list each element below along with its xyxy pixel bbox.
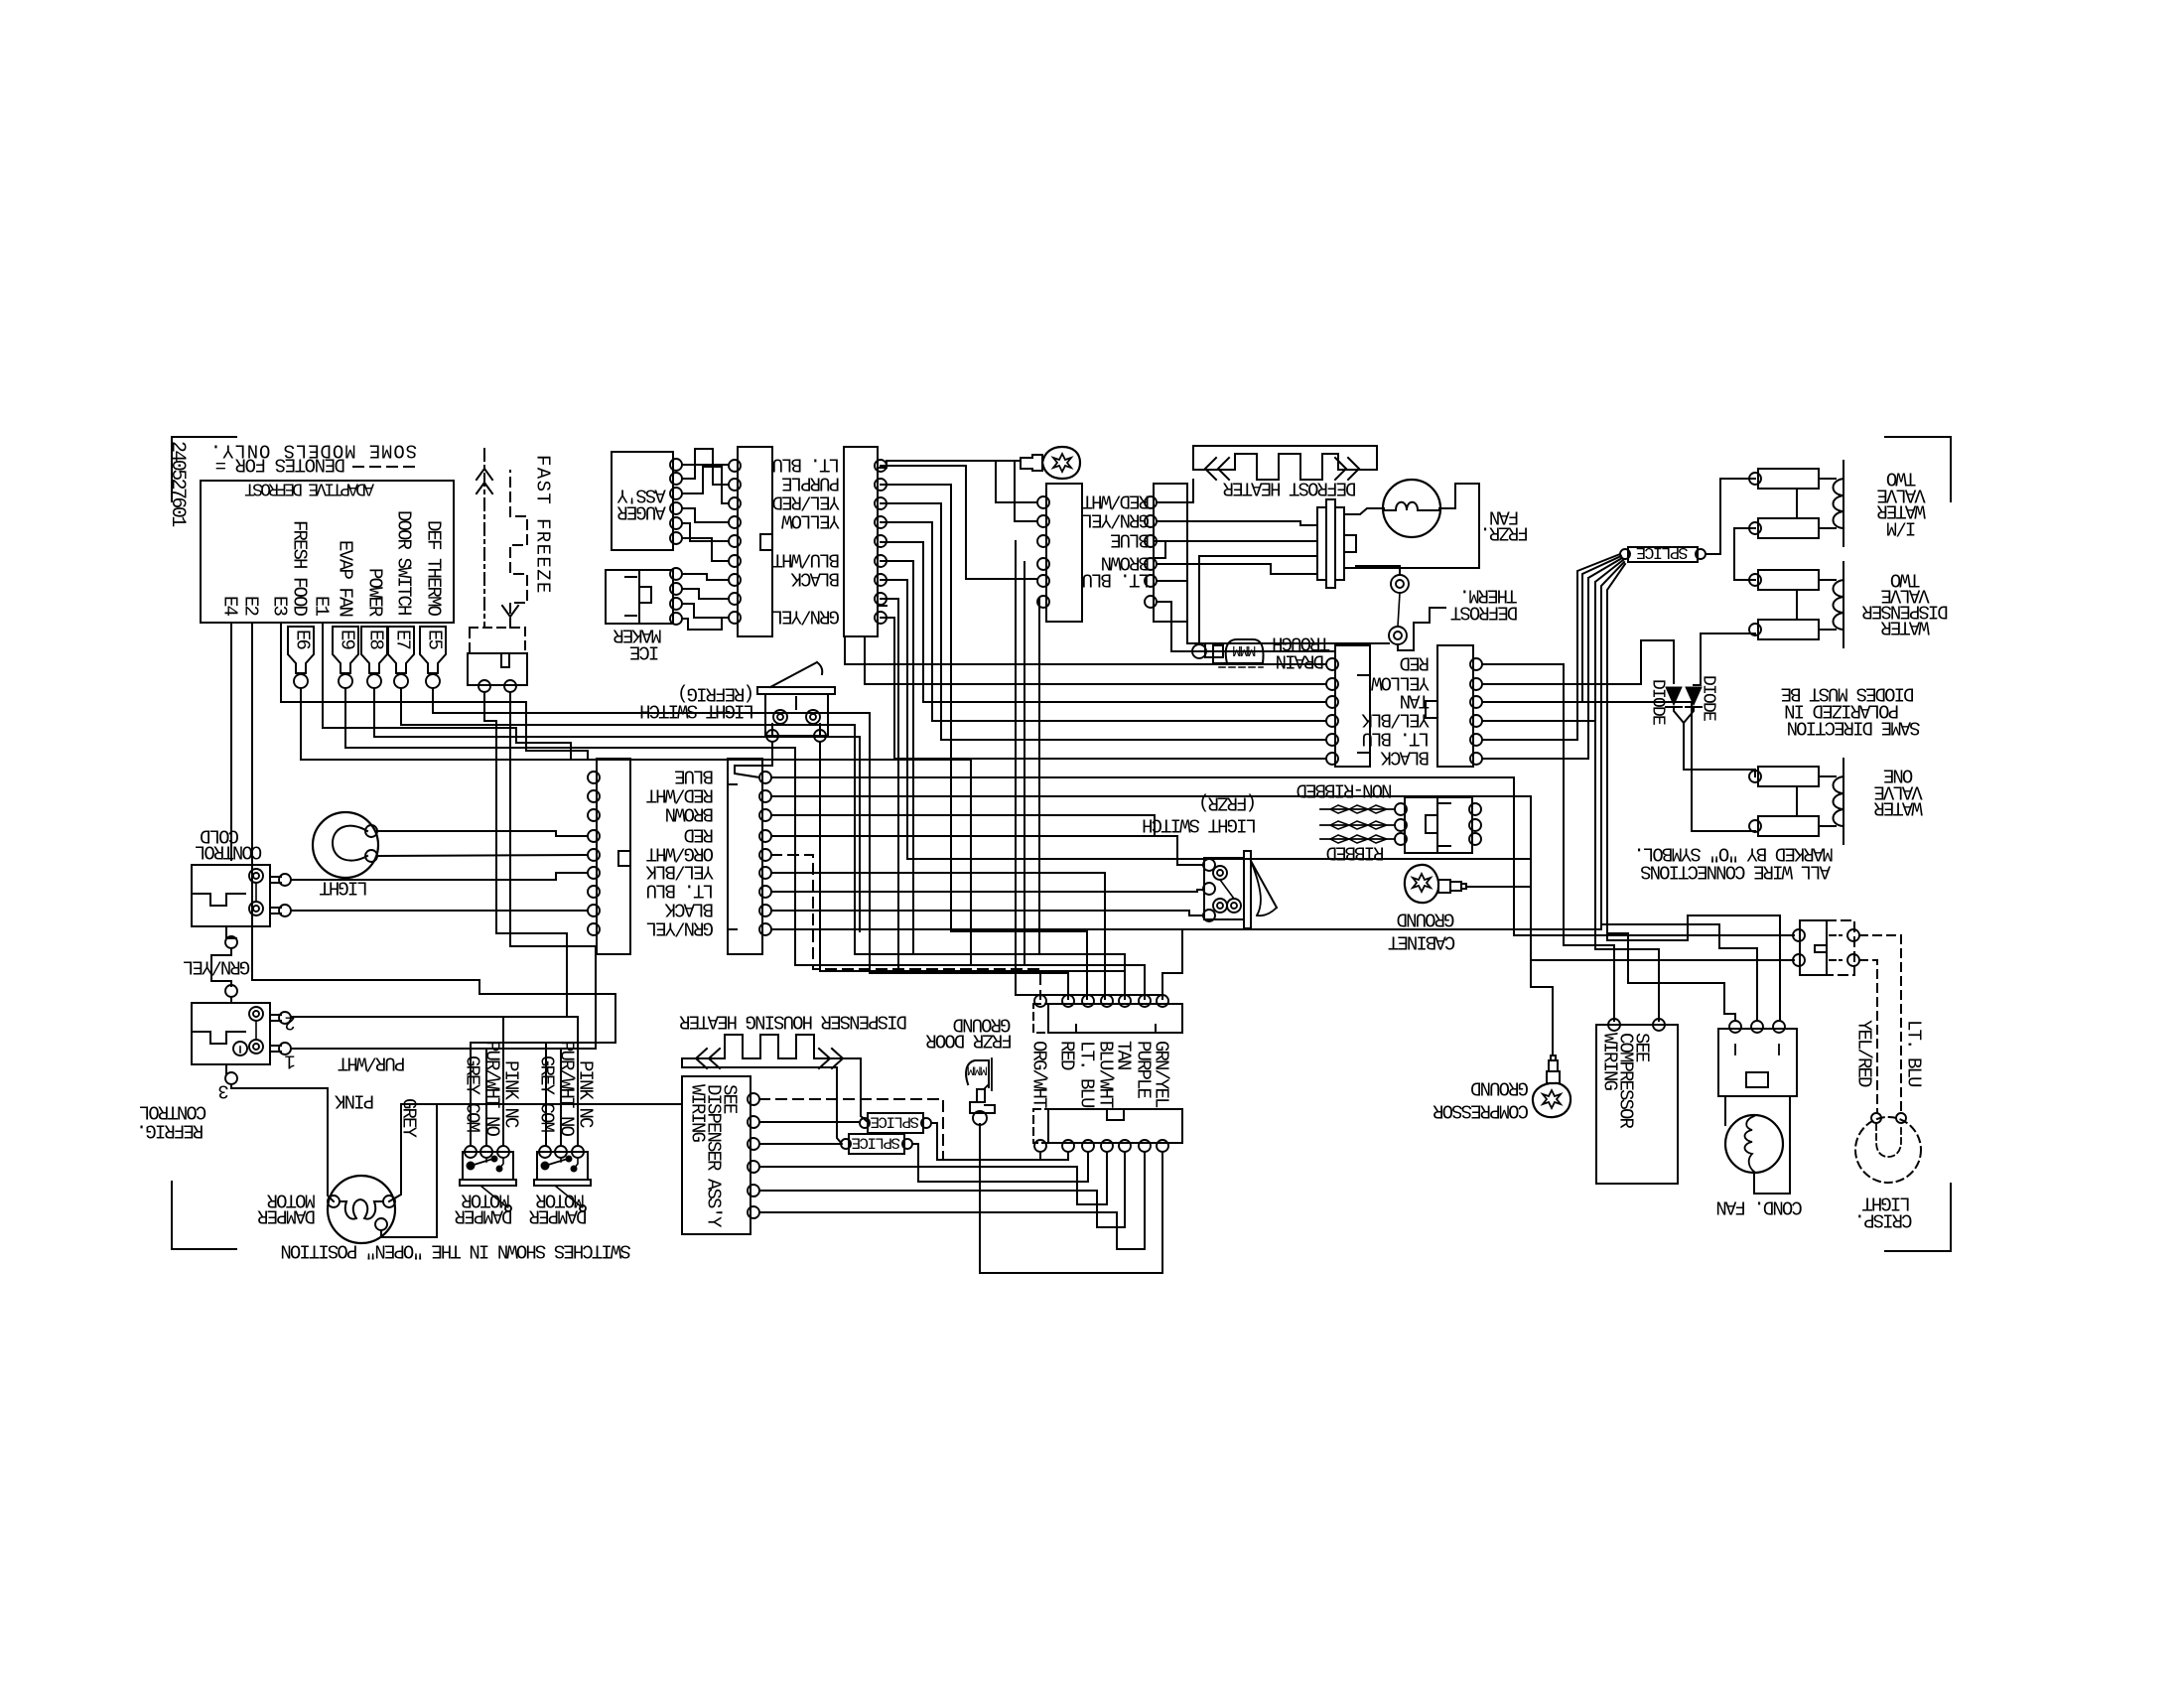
wire (1015, 461, 1037, 521)
svg-text:ORG/WHT: ORG/WHT (1027, 1041, 1049, 1108)
wire E8 (374, 688, 860, 931)
wire (771, 890, 1203, 892)
wire (1531, 959, 1794, 961)
svg-text:LT. BLU: LT. BLU (772, 453, 840, 475)
svg-text:BLACK: BLACK (1380, 746, 1430, 768)
svg-text:GRN/YEL: GRN/YEL (772, 605, 840, 627)
connector strip (evap harness, socket side) (1437, 645, 1473, 767)
wire (1577, 554, 1620, 740)
svg-text:GRN/YEL: GRN/YEL (1150, 1041, 1171, 1108)
svg-text:YEL/RED: YEL/RED (1852, 1020, 1874, 1087)
wire (560, 1049, 562, 1146)
svg-text:FAST FREEZE: FAST FREEZE (531, 455, 553, 595)
socket terminals (1145, 496, 1157, 508)
cabinet ground lug (1405, 865, 1438, 903)
svg-text:COND. FAN: COND. FAN (1717, 1196, 1803, 1217)
plug terminals (1037, 496, 1049, 508)
light switch (refrig) (757, 687, 835, 694)
connector strip (ice maker harness, cabinet side) (844, 447, 878, 636)
plug terminals (729, 460, 741, 472)
auger assembly (612, 452, 673, 550)
wire (881, 522, 1326, 721)
svg-text:EVAP FAN: EVAP FAN (334, 540, 355, 617)
connector strip (fresh food harness, socket side) (728, 759, 762, 954)
cold control bottom terminal (226, 926, 236, 938)
light switch (frzr) (1244, 851, 1251, 928)
svg-text:AUGER: AUGER (617, 500, 666, 522)
svg-text:ADAPTIVE DEFROST: ADAPTIVE DEFROST (244, 479, 374, 498)
svg-text:E8: E8 (364, 630, 386, 650)
svg-text:FRZR.: FRZR. (1481, 521, 1529, 543)
svg-text:DOOR SWITCH: DOOR SWITCH (392, 510, 414, 615)
wire (759, 1121, 860, 1123)
svg-text:1: 1 (285, 1050, 296, 1071)
splice (868, 1113, 923, 1133)
drain trough clamp (1205, 645, 1227, 663)
wire (1607, 933, 1735, 1021)
drain trough heater (1226, 639, 1264, 663)
wire (759, 1152, 1125, 1227)
svg-text:TAN: TAN (1401, 689, 1430, 711)
connector strip (dispenser harness, top) (1048, 1004, 1182, 1033)
arrow (696, 1049, 707, 1068)
power cord connector (1405, 797, 1437, 853)
arrow (477, 469, 492, 480)
wire (1038, 599, 1040, 954)
wire: board stub E4 (230, 623, 232, 860)
wire (291, 1017, 578, 1146)
svg-text:BLACK: BLACK (790, 567, 840, 589)
wire (1674, 707, 1755, 776)
svg-text:GRN/YEL: GRN/YEL (646, 916, 714, 938)
svg-text:SPLICE: SPLICE (871, 1112, 919, 1130)
svg-text:RED: RED (1055, 1041, 1077, 1070)
wire: board stub E1 (323, 623, 571, 759)
wire (771, 777, 1794, 935)
wire (1582, 556, 1621, 702)
adaptive defrost control board (201, 481, 454, 623)
wire (865, 636, 1326, 684)
wire (682, 523, 729, 541)
wire label GRN/YEL (211, 948, 231, 986)
refrig control (192, 1003, 270, 1064)
wire (1588, 558, 1622, 759)
svg-text:DEF THERMO: DEF THERMO (422, 520, 444, 617)
wire (230, 997, 232, 1003)
svg-text:GROUND: GROUND (1397, 908, 1455, 929)
wire (1701, 633, 1755, 634)
wire (771, 873, 1105, 999)
wire (1157, 581, 1389, 643)
wire (1489, 739, 1577, 741)
wire (887, 461, 1021, 464)
wire (dashed) (759, 1099, 1040, 1160)
svg-text:DEFROST HEATER: DEFROST HEATER (1223, 477, 1357, 498)
wire (dashed) (1859, 935, 1901, 1113)
wire (1157, 564, 1317, 574)
wire (1157, 521, 1317, 525)
wire: board stub E2 (252, 623, 615, 994)
switch lever (1251, 861, 1277, 908)
svg-text:PINK: PINK (335, 1089, 375, 1111)
svg-text:COMPRESSOR: COMPRESSOR (1433, 1099, 1529, 1121)
diode (1666, 687, 1682, 705)
arrow (1348, 458, 1359, 480)
splice (849, 1134, 904, 1154)
svg-text:ALL WIRE CONNECTIONS: ALL WIRE CONNECTIONS (1640, 860, 1831, 882)
wire (1482, 739, 1577, 741)
svg-text:DAMPER: DAMPER (455, 1204, 513, 1226)
svg-text:YEL/BLK: YEL/BLK (645, 860, 714, 882)
wire (471, 1043, 615, 1146)
wire (980, 1124, 1162, 1273)
defrost heater plug (1317, 507, 1326, 580)
wire (1482, 702, 1692, 719)
wire (1694, 633, 1701, 685)
svg-text:TAN: TAN (1112, 1041, 1134, 1069)
svg-text:WIRING: WIRING (1598, 1033, 1620, 1091)
svg-text:GRN/YEL: GRN/YEL (1082, 508, 1150, 530)
spade terminal E6 (288, 627, 314, 673)
spade terminal E9 (333, 627, 358, 673)
wire (881, 503, 1326, 740)
wire (dashed) (1859, 960, 1877, 1113)
svg-text:LIGHT SWITCH: LIGHT SWITCH (640, 699, 754, 721)
svg-text:CRISP.: CRISP. (1855, 1208, 1912, 1230)
wire (759, 1152, 1107, 1204)
wire (845, 636, 1326, 664)
terminals (1395, 803, 1407, 815)
diode (1686, 687, 1702, 705)
svg-text:FRESH FOOD: FRESH FOOD (288, 520, 310, 617)
damper motor switch (463, 1152, 513, 1180)
svg-text:I/M: I/M (1886, 516, 1916, 538)
terminals (1034, 1140, 1046, 1152)
svg-text:E3: E3 (268, 596, 290, 617)
svg-text:DAMPER: DAMPER (257, 1204, 316, 1226)
wire (614, 994, 616, 1043)
wire (881, 485, 1087, 999)
damper motor (328, 1176, 395, 1243)
wire (1162, 929, 1182, 999)
wire (771, 815, 1155, 836)
svg-text:BROWN: BROWN (666, 802, 714, 824)
crisp light (dashed) (1855, 1117, 1921, 1183)
svg-text:E6: E6 (291, 630, 313, 650)
svg-text:GREY COM: GREY COM (461, 1055, 482, 1133)
wire (682, 604, 729, 618)
svg-text:DISPENSER HOUSING HEATER: DISPENSER HOUSING HEATER (679, 1010, 907, 1032)
ice maker terminals (670, 568, 682, 580)
wire (1482, 582, 1595, 721)
svg-text:MMM: MMM (968, 1062, 988, 1077)
svg-text:2: 2 (285, 1011, 296, 1033)
svg-text:YELLOW: YELLOW (780, 509, 840, 531)
svg-text:LIGHT SWITCH: LIGHT SWITCH (1143, 813, 1257, 835)
door switch (1800, 920, 1827, 975)
wire PINK (231, 1084, 334, 1201)
svg-text:SAME DIRECTION: SAME DIRECTION (1788, 716, 1921, 738)
wire (682, 618, 722, 630)
svg-text:NON-RIBBED: NON-RIBBED (1297, 778, 1393, 800)
wire (1595, 560, 1623, 721)
spade terminal E7 (388, 627, 414, 673)
socket terminals (1470, 658, 1482, 670)
wire (1344, 508, 1384, 514)
svg-text:YEL/RED: YEL/RED (772, 491, 840, 512)
wire (881, 618, 1326, 759)
wire (1157, 602, 1335, 651)
wire (1607, 915, 1780, 1021)
wire (735, 742, 772, 777)
see dispenser assembly wiring box (682, 1076, 751, 1234)
wire (485, 1049, 487, 1146)
svg-text:PUR/WHT: PUR/WHT (338, 1052, 405, 1073)
spade terminal E8 (361, 627, 387, 673)
wire (1607, 564, 1625, 933)
wire (545, 1043, 547, 1146)
connector strip (evap harness, plug side) (1335, 645, 1370, 767)
wire E5 (433, 688, 1068, 999)
svg-text:BLUE: BLUE (674, 765, 714, 786)
connector strip (ice maker harness, plug side) (738, 447, 772, 636)
svg-text:REFRIG.: REFRIG. (138, 1119, 205, 1141)
wire (759, 1143, 841, 1145)
I/M water valve two (1758, 469, 1819, 489)
svg-text:SWITCHES SHOWN IN THE "OPEN" P: SWITCHES SHOWN IN THE "OPEN" POSITION (282, 1239, 631, 1261)
svg-text:WATER: WATER (1881, 616, 1930, 637)
cold control (192, 865, 270, 926)
svg-text:FRZR DOOR: FRZR DOOR (926, 1029, 1013, 1051)
wire (291, 1048, 596, 1050)
wire (1734, 528, 1755, 580)
svg-text:RED/WHT: RED/WHT (646, 783, 714, 805)
svg-text:LT. BLU: LT. BLU (1362, 727, 1430, 749)
wire (1531, 887, 1553, 1055)
wire (682, 464, 729, 466)
wire E7 (401, 688, 1125, 999)
svg-text:LT. BLU: LT. BLU (646, 879, 714, 901)
svg-text:E5: E5 (423, 630, 445, 650)
wire (1601, 562, 1624, 924)
svg-text:BLU/WHT: BLU/WHT (772, 548, 840, 570)
wire (1482, 640, 1674, 684)
wire (861, 1058, 868, 1122)
wire (881, 580, 1531, 887)
wire (912, 1144, 1088, 1182)
wire (1601, 924, 1757, 1021)
wire (1199, 556, 1317, 644)
refrig control bottom terminal (225, 1064, 227, 1074)
wire (381, 1104, 437, 1237)
arrow (832, 1049, 843, 1068)
wire (881, 542, 1326, 702)
connector strip (fresh food harness, plug side) (597, 759, 630, 954)
wire (502, 1017, 504, 1146)
auger terminals (670, 459, 682, 471)
wire (1157, 480, 1193, 502)
wire (682, 467, 729, 503)
svg-text:DRAIN: DRAIN (1277, 649, 1324, 671)
wire (1016, 541, 1162, 995)
cabinet side terminals (875, 460, 887, 472)
wire (996, 461, 1037, 502)
svg-text:WIRING: WIRING (686, 1084, 708, 1143)
water dispenser valve two (1758, 570, 1819, 590)
wire: fast freeze 2 (510, 692, 596, 1049)
switch pointer (480, 1186, 506, 1206)
svg-text:CABINET: CABINET (1388, 930, 1455, 952)
freezer fan motor (1383, 480, 1440, 537)
wire (931, 1123, 1068, 1160)
wire (881, 561, 913, 954)
switch lever (770, 662, 817, 687)
svg-text:RED: RED (1400, 651, 1430, 673)
wire (682, 449, 729, 485)
connector strip (freezer harness, plug side) (1046, 484, 1082, 622)
wire (377, 831, 588, 836)
part number 240527601 (166, 441, 189, 527)
svg-text:YEL/BLK: YEL/BLK (1361, 708, 1430, 730)
ribbed wires (1320, 808, 1395, 810)
wire (1595, 721, 1659, 1021)
terminals (1608, 1019, 1620, 1031)
svg-text:LT. BLU: LT. BLU (1075, 1041, 1097, 1108)
wire: board stub E3 (281, 623, 588, 759)
svg-text:SPLICE: SPLICE (1636, 542, 1689, 561)
switch pointer (555, 1186, 581, 1206)
wire: fast freeze 1 (484, 692, 567, 1017)
wire (820, 742, 1125, 998)
svg-text:(FRZR): (FRZR) (1200, 791, 1257, 813)
wire (771, 928, 1601, 930)
svg-text:SPLICE: SPLICE (852, 1133, 900, 1151)
svg-text:RIBBED: RIBBED (1326, 841, 1385, 863)
wire (682, 1058, 842, 1144)
wire (1356, 566, 1400, 575)
defrost thermostat (1391, 575, 1409, 593)
wire E9 (345, 688, 1145, 999)
svg-text:E2: E2 (239, 596, 261, 617)
plug terminals (588, 772, 600, 783)
ground lug (1021, 455, 1042, 471)
svg-text:E7: E7 (391, 630, 413, 649)
wire (682, 589, 729, 599)
svg-text:CONTROL: CONTROL (139, 1100, 206, 1122)
svg-text:DENOTES FOR =: DENOTES FOR = (215, 453, 345, 475)
wire (1466, 886, 1531, 888)
water valve one (1758, 767, 1819, 786)
svg-text:DEFROST: DEFROST (1450, 601, 1518, 623)
svg-text:BLACK: BLACK (664, 898, 714, 919)
arrow (1205, 458, 1216, 480)
see compressor wiring box (1596, 1025, 1678, 1184)
ice maker (606, 570, 673, 624)
terminals (1034, 995, 1046, 1007)
svg-text:ICE: ICE (629, 640, 659, 662)
svg-text:LT. BLU: LT. BLU (1902, 1020, 1924, 1087)
wire (771, 911, 1203, 915)
svg-text:DIODE: DIODE (1648, 679, 1668, 725)
damper motor switch (537, 1152, 588, 1180)
svg-text:LT. BLU: LT. BLU (1082, 568, 1150, 590)
condenser fan motor (1718, 1029, 1797, 1096)
svg-text:E1: E1 (310, 596, 332, 617)
wire E6 (301, 688, 971, 965)
wire (881, 599, 898, 973)
wire (1482, 664, 1614, 1021)
wire (771, 836, 1203, 865)
wire (1482, 578, 1588, 759)
splice (1628, 547, 1698, 562)
svg-text:E4: E4 (218, 596, 240, 617)
wire (682, 574, 729, 580)
svg-text:240527601: 240527601 (166, 441, 189, 527)
wire (1692, 719, 1755, 831)
wire (377, 855, 588, 856)
defrost heater (1193, 446, 1377, 470)
terminals (748, 1093, 759, 1105)
svg-text:RED/WHT: RED/WHT (1082, 490, 1150, 511)
svg-text:PUR/WHT NO: PUR/WHT NO (480, 1041, 502, 1137)
plug terminals (1326, 658, 1338, 670)
wire (dashed ORG/WHT) (771, 855, 1040, 999)
wire (881, 466, 1037, 579)
svg-text:BLUE: BLUE (1110, 528, 1150, 550)
arrow (502, 606, 518, 617)
wire (291, 873, 588, 880)
fast freeze switch (483, 449, 485, 628)
frzr door ground (966, 1060, 989, 1087)
socket terminals (759, 772, 771, 783)
compressor ground lug (1533, 1083, 1570, 1117)
wire GREY (389, 1104, 682, 1201)
wire (1157, 540, 1317, 542)
wire (1024, 562, 1025, 965)
spade terminal E5 (420, 627, 446, 673)
connector strip (dispenser harness, bottom) (1048, 1109, 1182, 1143)
connector strip (freezer harness, socket side) (1154, 484, 1187, 622)
svg-text:GROUND: GROUND (1470, 1076, 1529, 1098)
wire (1684, 707, 1694, 723)
wire: splice to I/M valve (1706, 479, 1755, 554)
svg-text:PURPLE: PURPLE (781, 472, 840, 493)
wire (771, 796, 1531, 887)
svg-text:PUR/WHT NO: PUR/WHT NO (555, 1041, 577, 1137)
svg-text:E9: E9 (336, 630, 357, 650)
wire (1344, 484, 1479, 568)
svg-text:RED: RED (684, 823, 714, 845)
svg-text:GRN/YEL: GRN/YEL (183, 955, 250, 977)
svg-text:DAMPER: DAMPER (529, 1204, 588, 1226)
refrigerator light (313, 812, 378, 878)
svg-text:WATER: WATER (1874, 796, 1923, 818)
wire (682, 508, 729, 522)
svg-text:POWER: POWER (363, 568, 385, 617)
wire (682, 538, 729, 561)
wire (759, 1152, 1145, 1249)
wire (291, 910, 588, 912)
fast freeze switch body (470, 628, 525, 653)
